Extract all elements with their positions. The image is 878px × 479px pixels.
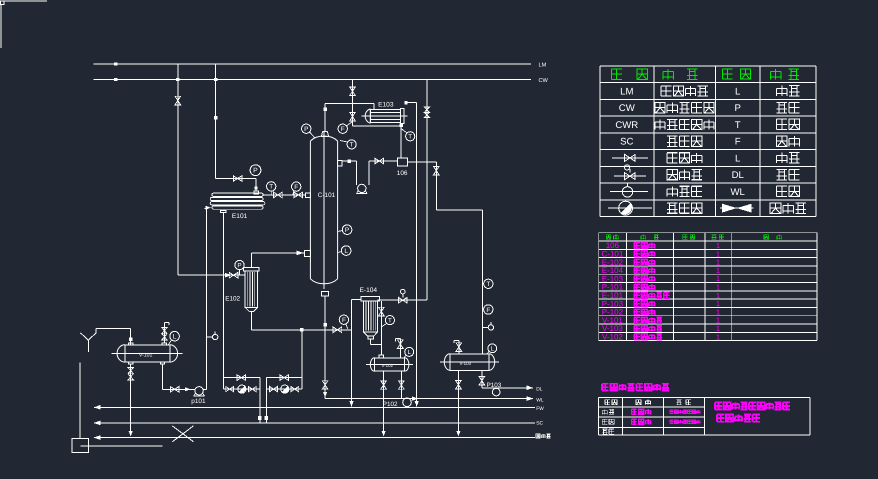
svg-text:P103: P103 <box>487 382 502 389</box>
row 制图 <box>602 419 607 424</box>
E103 condensate line to distributor 106 <box>400 127 402 158</box>
reflux pump <box>358 184 366 192</box>
pump P103 <box>492 388 500 396</box>
svg-text:DL: DL <box>732 170 745 181</box>
legend name 产品 <box>777 169 788 180</box>
X crossing mark <box>172 426 193 442</box>
E101 steam nozzle <box>254 191 259 194</box>
reflux drum V-102 <box>375 358 405 371</box>
legend symbol 截止阀 <box>612 157 648 159</box>
svg-text:E-104: E-104 <box>360 287 378 294</box>
instrument L at V-102 <box>405 347 414 356</box>
svg-text:CWR: CWR <box>615 120 638 131</box>
valve on CW to E103 (lower) <box>350 112 356 121</box>
valve on E101 steam branch <box>233 176 242 182</box>
V-101 drain <box>130 364 132 434</box>
CW line to E104 <box>426 80 428 301</box>
instrument P at E101 <box>250 165 261 176</box>
svg-text:LM: LM <box>620 86 633 97</box>
pump P102 <box>403 398 412 407</box>
legend table <box>600 66 816 217</box>
heat exchanger E101 (coil) <box>212 193 263 196</box>
steam trap cluster A (E101 condensate) <box>223 377 259 379</box>
legend name 冷却水(入) <box>655 103 665 113</box>
legend name 疏水器 <box>667 203 677 213</box>
legend name 流量 <box>777 136 788 147</box>
CW header line <box>94 79 531 81</box>
legend name 调节阀 <box>667 170 677 180</box>
WL bottoms line <box>325 398 533 400</box>
legend symbol 节流阀 <box>720 207 753 209</box>
valve at E102 steam inlet <box>229 272 238 278</box>
double valve on CW to E104 <box>424 107 429 112</box>
legend name 截止阀 <box>667 153 677 163</box>
svg-text:E103: E103 <box>378 102 394 109</box>
V-101 vent nozzle <box>162 343 166 345</box>
svg-text:T: T <box>388 317 392 324</box>
node at E102 bottoms junction <box>300 328 303 331</box>
instrument F on feed line <box>292 182 301 191</box>
sample port on feed riser <box>207 336 213 338</box>
valve on reflux line <box>375 158 384 164</box>
instrument P at column top <box>302 124 311 133</box>
product drum V-103 <box>450 354 489 371</box>
svg-text:L: L <box>735 86 741 97</box>
svg-text:SC: SC <box>536 421 543 427</box>
CW连接 line under E103 <box>353 125 402 127</box>
svg-text:F: F <box>341 126 345 133</box>
legend header 代号 名称 代号 名称 <box>611 69 621 79</box>
svg-text:F: F <box>342 317 346 324</box>
steam line to E102: vertical from LM header <box>177 64 179 275</box>
V-103 vent valve <box>458 341 460 354</box>
feed funnel <box>81 333 89 340</box>
instrument L at column middle <box>341 246 351 256</box>
legend name 温度 <box>777 119 788 130</box>
legend name 取样口 <box>667 186 677 196</box>
valve 2 on feed line <box>294 192 303 198</box>
V-102 vent valve <box>399 339 401 358</box>
V-101 vent valve <box>163 323 165 344</box>
label sewer 下水道 <box>536 434 540 438</box>
title block table <box>599 397 810 435</box>
svg-text:CW: CW <box>539 78 549 84</box>
LM header line <box>94 63 531 65</box>
E101 condensate nozzle <box>221 210 227 212</box>
legend name 釜液 <box>777 186 788 197</box>
V-102 inlet nozzle <box>379 355 384 358</box>
svg-text:C-101: C-101 <box>318 192 336 199</box>
svg-text:DL: DL <box>536 387 543 393</box>
V-103 left drain to sewer <box>457 370 459 434</box>
svg-text:P: P <box>237 262 241 269</box>
svg-text:P: P <box>304 126 308 133</box>
instrument T on distillate line <box>484 279 493 288</box>
distillate line 106 to V-103 <box>408 161 437 163</box>
drain square <box>72 438 88 452</box>
feed drum V-101 <box>125 345 170 362</box>
steam line horizontal into E102 <box>178 274 245 276</box>
row 审核 <box>602 429 607 434</box>
SC line <box>94 422 535 424</box>
svg-text:F: F <box>735 137 741 148</box>
drawing title 甲醇-水筛板精馏塔 <box>715 402 722 409</box>
equipment header 序号 名称 规格 数量 备注 <box>606 235 611 240</box>
equipment table <box>599 233 817 341</box>
E103 bottom node <box>400 124 403 127</box>
sewer line <box>94 437 535 439</box>
svg-text:T: T <box>350 142 354 149</box>
title 化工原理课程设计 <box>602 384 609 391</box>
pump p101 <box>195 387 203 395</box>
E102 vapour return to column <box>250 253 252 267</box>
instrument L at V-103 <box>488 344 497 353</box>
svg-text:WL: WL <box>536 398 544 404</box>
overhead vapour line to E103 <box>324 103 326 131</box>
svg-text:V-102: V-102 <box>602 333 623 342</box>
instrument F on distillate line <box>484 305 493 314</box>
instrument F at E103 CW <box>338 124 347 133</box>
sample port on distillate line <box>482 326 488 328</box>
svg-text:L: L <box>173 334 177 341</box>
valve on feed line <box>274 192 283 198</box>
valve on distillate line <box>434 166 440 175</box>
condenser E103 <box>361 115 407 117</box>
drawing title 工艺流程图 <box>717 414 724 421</box>
CW horizontal into E104 <box>378 299 427 301</box>
svg-text:FW: FW <box>536 406 544 412</box>
svg-text:E102: E102 <box>225 296 240 303</box>
valve on CW to E103 (upper) <box>350 87 356 96</box>
reflux: column top nozzle to pump <box>338 160 343 166</box>
V-102 right drain to WL <box>400 371 402 398</box>
E104 top-left pipe <box>352 298 361 300</box>
steam trap cluster B (E102 condensate) <box>266 377 302 379</box>
valve on bottoms line <box>333 327 342 333</box>
V-101 feed nozzle <box>129 343 133 345</box>
FW line <box>94 406 535 408</box>
column C-101 <box>310 136 337 284</box>
legend symbol 取样口 <box>610 190 648 192</box>
E101 condensate drain line <box>222 213 224 390</box>
legend name 放空 <box>777 86 788 97</box>
svg-text:V-101: V-101 <box>139 352 153 358</box>
header 职责 姓名 日期 <box>605 400 610 405</box>
instrument T at E103 outlet <box>406 132 415 141</box>
instrument T at column top <box>347 140 356 149</box>
feed line E101 to column C-101 <box>263 194 305 196</box>
frame corner top-left <box>1 1 5 5</box>
V-101 outlet to pump p101 <box>162 364 164 389</box>
steam elbow to E101 top <box>216 178 257 180</box>
instrument L at V-101 <box>170 331 180 341</box>
svg-text:T: T <box>735 120 741 131</box>
left standpipe <box>79 363 81 439</box>
DL product line <box>482 387 533 389</box>
E104 left standpipe down to FW <box>351 299 353 406</box>
valve on bottoms standpipe <box>322 381 328 389</box>
E103 vapour outlet node <box>404 101 407 104</box>
instrument T at E104 outlet <box>385 316 394 325</box>
column bottom nozzle <box>321 291 328 296</box>
svg-text:SC: SC <box>620 137 633 148</box>
feed line into V-101 <box>95 329 97 333</box>
svg-text:CW: CW <box>619 103 636 114</box>
svg-text:T: T <box>408 134 412 141</box>
E102 bottoms outlet <box>250 312 252 330</box>
svg-text:1: 1 <box>716 332 720 341</box>
legend name 底压蒸汽 <box>661 86 671 96</box>
svg-text:L: L <box>735 153 741 164</box>
column bottoms standpipe to WL <box>324 296 326 399</box>
drain stub line <box>80 445 162 447</box>
instrument F on bottoms line <box>339 315 348 324</box>
E103 vent line down to FW <box>406 102 417 104</box>
feed riser from p101 to E101 <box>206 209 208 390</box>
instrument P at E102 <box>235 260 244 269</box>
instrument T on feed line <box>267 182 276 191</box>
legend name 压强 <box>777 102 788 113</box>
svg-text:P: P <box>345 227 349 234</box>
column feed nozzle <box>306 193 311 197</box>
reflux pump discharge to 106 <box>368 161 370 185</box>
svg-text:P: P <box>734 103 740 114</box>
control valve at E104 <box>399 297 408 303</box>
svg-text:106: 106 <box>397 170 408 177</box>
svg-text:V-103: V-103 <box>460 361 472 366</box>
E104 right outlet line <box>380 301 382 355</box>
CW line to E103 <box>352 80 354 127</box>
svg-text:E101: E101 <box>232 213 248 220</box>
steam line to E101: vertical from LM header <box>215 64 217 179</box>
legend symbol 调节阀 <box>614 175 646 177</box>
bottoms line column/E102 <box>251 329 351 331</box>
svg-text:WL: WL <box>731 187 746 198</box>
svg-text:L: L <box>407 349 411 356</box>
svg-text:V-102: V-102 <box>382 363 394 368</box>
svg-text:P: P <box>253 168 258 175</box>
column top nozzle <box>321 131 328 136</box>
svg-text:p101: p101 <box>191 398 206 405</box>
legend symbol 疏水器 <box>608 207 652 209</box>
V-101 bottom nozzles <box>129 362 133 364</box>
svg-text:T: T <box>486 281 490 288</box>
legend name 节流阀 <box>770 203 781 214</box>
distributor 106 <box>398 158 408 166</box>
svg-text:F: F <box>294 184 298 191</box>
legend name 冷凝水 <box>667 136 677 146</box>
row 设计 <box>602 409 607 414</box>
E104 bottom outlet to V-102 <box>370 339 372 345</box>
instrument P at column middle <box>342 225 352 235</box>
svg-text:LM: LM <box>539 62 547 68</box>
svg-text:F: F <box>486 307 490 314</box>
V-102 left drain to sewer <box>383 371 385 434</box>
valve on steam line <box>175 96 181 105</box>
V-103 right drain to DL <box>481 370 483 388</box>
svg-text:L: L <box>344 248 348 255</box>
legend name 液位 <box>777 153 788 164</box>
valve on E104 outlet <box>379 307 385 316</box>
legend name 冷却水(出) <box>655 119 665 129</box>
svg-text:T: T <box>269 184 273 191</box>
